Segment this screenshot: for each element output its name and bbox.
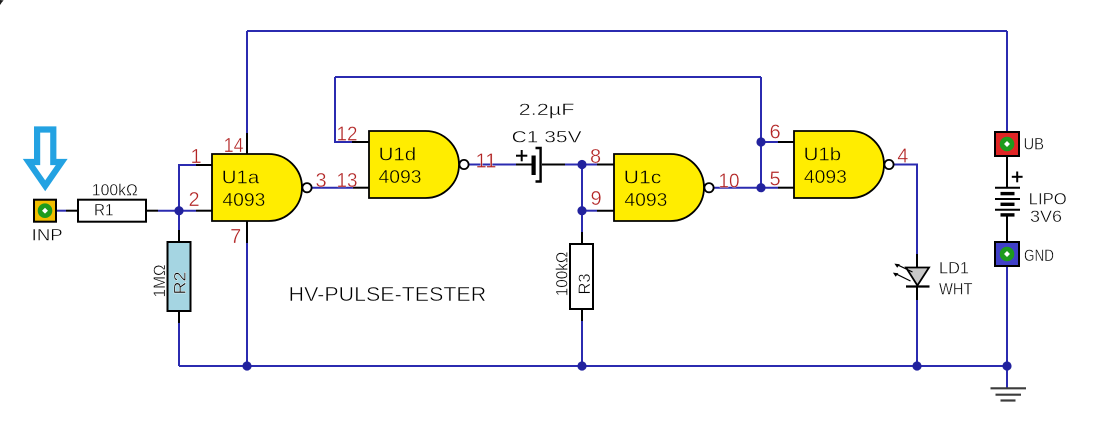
svg-text:C1 35V: C1 35V: [512, 129, 582, 147]
svg-text:5: 5: [769, 169, 780, 191]
wire node B2 to U1c pin9: [582, 210, 614, 212]
wire VDD top rail: [247, 30, 1007, 32]
node B2 junction: [577, 206, 586, 215]
wire U1b pin6/pin5 vertical drop: [760, 77, 762, 188]
svg-text:2: 2: [188, 189, 199, 211]
svg-text:4093: 4093: [379, 166, 422, 187]
svg-text:4093: 4093: [804, 166, 847, 187]
wire ground rail to earth symbol: [1006, 366, 1008, 388]
wire VDD rail down to UB terminal: [1006, 31, 1008, 132]
wire U1a output to U1d pin13: [312, 187, 369, 189]
svg-text:3: 3: [315, 170, 326, 192]
svg-text:LD1: LD1: [939, 259, 969, 277]
corner artifact: [0, 0, 4, 5]
wire R1 to node A: [146, 210, 179, 212]
wire node B down to R3: [581, 165, 583, 245]
resistor R3: [554, 244, 595, 309]
wire U1b output down to LED: [894, 165, 917, 268]
wire node B to U1c pin8: [582, 164, 614, 166]
LED LD1: [893, 259, 973, 298]
wire U1a pin7 drop to ground rail: [246, 221, 248, 366]
ground earth symbol: [991, 388, 1027, 400]
wire node A to U1a pin2: [179, 210, 212, 212]
svg-text:4093: 4093: [222, 189, 265, 210]
wire node C to U1b pin5: [761, 187, 794, 189]
wire feedback rail U1d pin12 to U1b pin6: [335, 76, 761, 78]
svg-text:8: 8: [590, 146, 601, 168]
svg-text:LIPO: LIPO: [1029, 191, 1067, 209]
svg-text:9: 9: [590, 188, 601, 210]
svg-text:WHT: WHT: [939, 281, 973, 299]
resistor R1: [78, 182, 146, 222]
svg-text:3V6: 3V6: [1030, 208, 1062, 226]
terminal GND: [995, 242, 1054, 266]
node C2 junction pin6: [756, 137, 765, 146]
svg-text:GND: GND: [1024, 247, 1054, 265]
svg-text:13: 13: [337, 170, 358, 192]
junction ground rail at U1a pin7: [242, 361, 251, 370]
wire LED cathode to ground rail: [916, 287, 918, 367]
terminal UB: [995, 132, 1044, 156]
wire U1d pin12 lead: [335, 77, 369, 142]
svg-text:10: 10: [719, 171, 740, 193]
NAND gate U1a 4093: [212, 154, 312, 221]
input arrow: [29, 130, 62, 186]
wire U1c output to node C: [714, 187, 761, 189]
svg-text:2.2µF: 2.2µF: [519, 101, 575, 119]
junction ground rail at R3: [577, 361, 586, 370]
svg-text:14: 14: [224, 135, 244, 157]
svg-text:4: 4: [897, 146, 908, 168]
svg-text:11: 11: [476, 151, 497, 173]
wire node A up to U1a pin1: [179, 165, 212, 211]
wire U1d output to C1: [469, 164, 532, 166]
junction ground rail at LED: [912, 361, 921, 370]
svg-text:UB: UB: [1024, 136, 1045, 154]
svg-text:100kΩ: 100kΩ: [554, 252, 572, 297]
wire C1 to node B: [542, 164, 582, 166]
svg-text:4093: 4093: [624, 189, 667, 210]
NAND gate U1c 4093: [614, 154, 714, 221]
svg-text:6: 6: [769, 122, 780, 144]
wire ground bottom rail: [179, 365, 1007, 367]
svg-text:R2: R2: [172, 272, 190, 295]
svg-text:7: 7: [230, 226, 241, 248]
capacitor C1: [512, 101, 582, 182]
svg-text:U1a: U1a: [222, 166, 260, 187]
svg-text:HV-PULSE-TESTER: HV-PULSE-TESTER: [289, 283, 487, 306]
wire R3 bottom to ground rail: [581, 309, 583, 366]
svg-text:1MΩ: 1MΩ: [151, 265, 169, 298]
svg-text:100kΩ: 100kΩ: [92, 182, 138, 200]
svg-text:R1: R1: [94, 202, 114, 220]
battery LIPO 3V6: [995, 172, 1067, 227]
node B junction: [577, 160, 586, 169]
node C junction pin5: [756, 183, 765, 192]
wire battery to GND terminal: [1006, 215, 1008, 242]
wire node A down to R2: [178, 211, 180, 242]
svg-text:INP: INP: [32, 227, 63, 245]
NAND gate U1b 4093: [794, 131, 894, 198]
svg-text:1: 1: [190, 146, 201, 168]
wire INP to R1: [57, 210, 78, 212]
svg-text:U1b: U1b: [804, 143, 842, 164]
wire UB terminal to battery: [1006, 157, 1008, 188]
node A junction: [174, 206, 183, 215]
wire U1a pin14 drop from VDD rail: [246, 31, 248, 154]
wire R2 bottom to ground rail: [178, 311, 180, 366]
terminal INP: [32, 200, 63, 245]
junction ground rail at battery: [1002, 361, 1011, 370]
wire node C2 to U1b pin6: [761, 141, 794, 143]
svg-text:U1d: U1d: [379, 143, 417, 164]
NAND gate U1d 4093: [369, 131, 469, 198]
svg-text:12: 12: [337, 124, 358, 146]
wire GND terminal down to ground rail: [1006, 267, 1008, 366]
svg-text:U1c: U1c: [624, 166, 662, 187]
svg-text:R3: R3: [576, 274, 594, 295]
resistor R2: [151, 242, 190, 311]
